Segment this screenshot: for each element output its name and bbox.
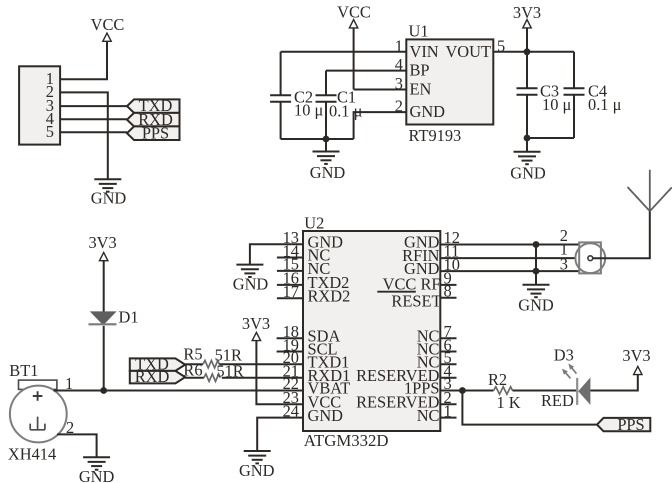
svg-text:RESET: RESET — [391, 292, 441, 311]
net label 3V3 (above D1) — [88, 233, 116, 252]
U2 value ATGM332D — [304, 431, 389, 450]
capacitor C2 — [270, 52, 323, 139]
LED D3 — [562, 364, 590, 405]
svg-text:0.1 μ: 0.1 μ — [329, 102, 363, 121]
wire C3 to C4 bottom — [527, 137, 574, 139]
junction (1PPS / PPS) — [459, 387, 466, 394]
svg-text:GND: GND — [310, 163, 346, 182]
svg-text:VCC RF: VCC RF — [383, 274, 441, 293]
wire U2 pin10 to RF connector — [440, 270, 579, 272]
wire battery pin2 to GND — [57, 434, 97, 457]
wire U2 pin19 stub — [277, 351, 303, 353]
svg-text:4: 4 — [395, 55, 403, 74]
capacitor C4 — [564, 52, 622, 138]
svg-text:BT1: BT1 — [9, 361, 38, 380]
wire C2 to C1 bottom — [281, 138, 354, 140]
wire U2 pin4 stub — [440, 377, 456, 379]
net label VCC (top-left) — [91, 15, 125, 34]
net label GND (below connector) — [91, 189, 127, 208]
U2 left pin names — [308, 232, 351, 424]
net label VCC (above U1) — [337, 3, 371, 22]
U1 pin number 5 — [497, 36, 505, 55]
net flag PPS (top) — [127, 123, 180, 142]
connector J1 pin numbers 1-5 — [46, 69, 54, 141]
battery pin 2 label — [66, 418, 74, 437]
wire R5 to U2 pin20 — [219, 363, 303, 365]
junction (pin12 gnd) — [533, 241, 540, 248]
svg-text:GND: GND — [91, 189, 127, 208]
net flag TXD (top) — [127, 96, 180, 115]
resistor R6 — [204, 374, 220, 381]
power symbol 3V3 (U2 VCC) — [252, 332, 260, 340]
wire R2 to D3 — [513, 390, 577, 392]
net label 3V3 (U2 VCC) — [242, 314, 270, 333]
svg-text:BP: BP — [410, 61, 430, 80]
svg-text:R6: R6 — [183, 361, 202, 380]
svg-text:ATGM332D: ATGM332D — [304, 431, 389, 450]
wire 3V3 to VOUT — [526, 28, 528, 52]
wire U2 pin24 to GND — [257, 418, 303, 451]
U1 value RT9193 — [409, 126, 462, 145]
svg-text:3V3: 3V3 — [242, 314, 270, 333]
wire U2 pin5 stub — [440, 363, 456, 365]
svg-text:1: 1 — [395, 36, 403, 55]
net flag TXD (bottom) — [130, 355, 185, 374]
wire U2 pin3 1PPS to R2 — [440, 390, 493, 392]
net label GND (battery) — [79, 467, 115, 483]
ground (U2 pin13) — [236, 265, 263, 277]
power symbol VCC (top-left) — [103, 33, 111, 41]
svg-text:3V3: 3V3 — [622, 346, 650, 365]
wire U1 pin2 GND — [354, 112, 407, 139]
ground (below connector) — [94, 179, 121, 191]
wire U2 pin16 stub — [277, 284, 303, 286]
ground (U1 left) — [313, 152, 340, 164]
wire U2 pin14 stub — [277, 257, 303, 259]
svg-text:D3: D3 — [554, 346, 574, 365]
resistor R2 — [494, 387, 513, 394]
svg-text:10 μ: 10 μ — [542, 95, 571, 114]
power symbol 3V3 (above D1) — [100, 253, 108, 261]
U1 pin number 4 — [395, 55, 403, 74]
junction (D1 / VBAT) — [100, 387, 107, 394]
svg-text:U1: U1 — [409, 21, 429, 40]
svg-text:3: 3 — [395, 74, 403, 93]
capacitor C1 — [316, 71, 363, 139]
ground (U1 right) — [514, 152, 541, 164]
U2 right pin numbers — [444, 228, 460, 420]
wire U2 pin12 to RF connector — [440, 244, 579, 246]
IC U1 body — [406, 39, 493, 124]
svg-text:VCC: VCC — [337, 3, 371, 22]
svg-text:RXD: RXD — [135, 367, 170, 386]
svg-text:EN: EN — [410, 80, 432, 99]
net label GND (U1 right) — [510, 164, 546, 183]
wire gnd drop (RF) — [535, 245, 537, 285]
battery BT1 — [10, 380, 67, 442]
RF connector labels 2,1,3 — [560, 226, 568, 274]
wire U2 pin17 stub — [277, 297, 303, 299]
svg-text:RXD2: RXD2 — [308, 287, 351, 306]
RF connector X1 — [575, 242, 605, 273]
U2 VCC_RF underline — [377, 291, 416, 293]
U2 right pin names — [356, 233, 441, 425]
wire 3V3 to U2 pin23 — [256, 341, 303, 405]
svg-text:1 K: 1 K — [497, 393, 521, 412]
R6 value 51R — [216, 362, 243, 381]
U1 pin names — [410, 42, 492, 121]
wire R6 to U2 pin21 — [222, 377, 303, 379]
net label GND (U2 pin13) — [233, 275, 269, 294]
svg-text:RED: RED — [541, 391, 574, 410]
svg-text:GND: GND — [79, 467, 115, 483]
net flag RXD (bottom) — [130, 367, 185, 386]
IC U2 body — [303, 231, 440, 431]
junction (VOUT / 3V3) — [524, 48, 531, 55]
net label 3V3 (above C3) — [513, 3, 541, 22]
wire connector pin4 — [60, 118, 127, 120]
wire D3 to 3V3 — [590, 375, 637, 391]
wire U1 VOUT — [493, 51, 574, 53]
wire RXD flag to R6 — [185, 377, 204, 379]
svg-text:0.1 μ: 0.1 μ — [588, 95, 622, 114]
U1 reference — [409, 21, 429, 40]
svg-text:VCC: VCC — [91, 15, 125, 34]
R5 value 51R — [215, 345, 242, 364]
wire U2 pin15 stub — [277, 270, 303, 272]
junction (C1 bottom) — [323, 136, 330, 143]
wire U1 pin4 BP — [326, 70, 406, 72]
svg-text:10 μ: 10 μ — [294, 100, 323, 119]
R2 reference — [488, 370, 507, 389]
wire RF to antenna — [593, 211, 650, 258]
wire U2 pin13 to GND — [250, 244, 303, 264]
svg-text:GND: GND — [308, 406, 344, 425]
svg-text:GND: GND — [239, 461, 275, 480]
wire connector pin2 to GND — [60, 92, 108, 179]
wire U2 pin18 stub — [277, 337, 303, 339]
wire TXD flag to R5 — [185, 363, 203, 365]
net flag RXD (top) — [127, 110, 180, 129]
net label GND (RF) — [518, 296, 554, 315]
U1 pin number 3 — [395, 74, 403, 93]
wire U1 pin3 EN — [354, 89, 407, 91]
wire connector pin3 — [60, 105, 127, 107]
svg-text:GND: GND — [233, 275, 269, 294]
svg-text:5: 5 — [46, 122, 54, 141]
svg-text:2: 2 — [395, 97, 403, 116]
power symbol 3V3 (above C3) — [523, 20, 531, 28]
svg-text:PPS: PPS — [142, 123, 169, 142]
wire to ground (U1 right) — [526, 138, 528, 152]
diode D1 — [89, 311, 117, 325]
wire D1 cathode to VBAT — [103, 326, 105, 391]
wire U2 pin2 stub — [440, 403, 456, 405]
wire U2 pin7 stub — [440, 337, 456, 339]
svg-text:17: 17 — [283, 282, 299, 301]
svg-text:U2: U2 — [304, 213, 324, 232]
svg-text:R2: R2 — [488, 370, 507, 389]
svg-text:PPS: PPS — [617, 415, 644, 434]
ground (RF) — [523, 285, 550, 297]
wire connector pin5 — [60, 131, 127, 133]
wire U1 pin1 VIN — [281, 51, 407, 53]
net label GND (U2 pin24) — [239, 461, 275, 480]
D3 value RED — [541, 391, 574, 410]
battery BT1 reference — [9, 361, 38, 380]
svg-text:VIN: VIN — [410, 42, 439, 61]
net label 3V3 (D3) — [622, 346, 650, 365]
wire U2 pin11 RFIN — [440, 257, 575, 259]
svg-text:3V3: 3V3 — [88, 233, 116, 252]
D1 reference — [119, 307, 139, 326]
wire VCC to EN — [353, 28, 355, 90]
wire U2 pin1 stub — [440, 417, 456, 419]
wire 3V3 to D1 anode — [103, 261, 105, 313]
power symbol 3V3 (D3) — [634, 366, 642, 374]
svg-text:NC: NC — [417, 406, 440, 425]
svg-text:RT9193: RT9193 — [409, 126, 462, 145]
net flag PPS (bottom right) — [597, 415, 650, 434]
wire U2 pin8 stub — [440, 297, 456, 299]
svg-text:GND: GND — [518, 296, 554, 315]
D3 reference — [554, 346, 574, 365]
wire 1PPS to PPS flag — [462, 391, 597, 425]
wire connector pin1 to VCC — [60, 41, 107, 79]
U1 pin number 2 — [395, 97, 403, 116]
svg-text:D1: D1 — [119, 307, 139, 326]
junction (C3 bottom) — [524, 135, 531, 142]
U2 left pin numbers — [283, 228, 299, 420]
wire U2 pin9 stub — [440, 284, 456, 286]
connector J1 body — [19, 66, 60, 144]
R2 value 1 K — [497, 393, 521, 412]
resistor R5 — [203, 361, 219, 368]
U2 reference — [304, 213, 324, 232]
svg-text:3: 3 — [560, 255, 568, 274]
junction (pin10 gnd) — [533, 268, 540, 275]
U1 pin number 1 — [395, 36, 403, 55]
battery pin 1 label — [65, 374, 73, 393]
R5 reference — [183, 345, 202, 364]
wire U2 pin6 stub — [440, 351, 456, 353]
svg-text:VOUT: VOUT — [445, 42, 491, 61]
power symbol VCC (above U1) — [349, 20, 357, 28]
R6 reference — [183, 361, 202, 380]
svg-text:GND: GND — [510, 164, 546, 183]
wire to ground (U1 left) — [325, 139, 327, 152]
net label GND (U1 left) — [310, 163, 346, 182]
battery BT1 value XH414 — [8, 445, 56, 464]
svg-text:XH414: XH414 — [8, 445, 56, 464]
ground (battery) — [83, 457, 110, 469]
wire battery pin1 to U2 pin22 VBAT — [54, 390, 304, 392]
capacitor C3 — [517, 52, 572, 138]
svg-text:GND: GND — [410, 102, 446, 121]
ground (U2 pin24) — [244, 451, 271, 463]
antenna ANT1 — [628, 170, 672, 212]
